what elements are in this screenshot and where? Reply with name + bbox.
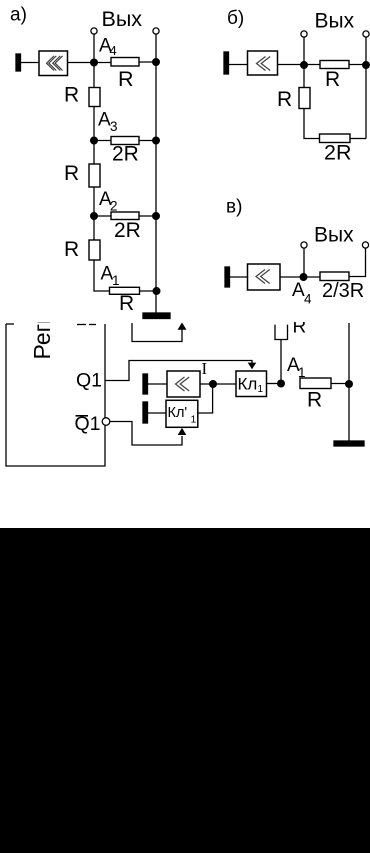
node A1 junction dot (fragment) xyxy=(278,380,285,387)
wire xyxy=(21,62,40,64)
arrowhead up into Kl'1 xyxy=(178,428,187,435)
svg-text:I: I xyxy=(202,359,208,378)
wire xyxy=(94,215,111,217)
ground (fragment) xyxy=(334,441,364,446)
wire xyxy=(303,65,305,88)
terminal circle right (a) xyxy=(153,28,159,34)
battery bar E (a) xyxy=(16,54,21,71)
svg-text:4: 4 xyxy=(110,43,117,58)
battery bar E (b) xyxy=(224,52,229,74)
svg-text:R: R xyxy=(277,88,292,111)
svg-text:1: 1 xyxy=(112,273,120,288)
wire xyxy=(349,64,366,66)
wire xyxy=(349,248,366,276)
svg-text:2: 2 xyxy=(110,199,118,214)
arrowhead up (hook) xyxy=(178,323,187,330)
wire Kl'1 to junction xyxy=(198,387,213,413)
register box (cropped) xyxy=(6,324,105,466)
right rail (a) xyxy=(155,34,157,313)
wire xyxy=(331,383,349,385)
wire xyxy=(139,215,156,217)
svg-text:а): а) xyxy=(10,5,27,26)
wire xyxy=(303,37,305,65)
wire xyxy=(304,109,320,139)
switch Kl'1 box xyxy=(166,400,198,427)
node A4 junction dot xyxy=(91,59,98,66)
right rail (fragment) xyxy=(348,323,350,441)
battery bar E1 (fragment) xyxy=(143,374,148,394)
svg-text:Q1: Q1 xyxy=(76,370,102,392)
wire xyxy=(139,140,156,142)
terminal circle left (b) xyxy=(301,31,307,37)
wire xyxy=(93,107,95,141)
wire xyxy=(93,187,95,216)
svg-text:4: 4 xyxy=(304,292,312,307)
wire xyxy=(229,64,248,66)
svg-text:1: 1 xyxy=(191,414,197,426)
junction dot right rail row4 xyxy=(153,288,160,295)
wire xyxy=(93,141,95,165)
svg-text:1: 1 xyxy=(258,384,264,395)
right rail (b) xyxy=(365,37,367,138)
wire xyxy=(68,62,112,64)
battery bar E (v) xyxy=(225,267,230,287)
terminal circle right (v) xyxy=(362,242,368,248)
terminal circle left (a) xyxy=(91,28,97,34)
wire Q1-bar to Kl'1 control xyxy=(110,422,182,446)
node A2 junction dot xyxy=(91,213,98,220)
wire xyxy=(148,383,168,385)
node A3 junction dot xyxy=(91,137,98,144)
junction dot right (b) xyxy=(363,62,370,69)
wire from cropped R down to node A1 xyxy=(280,340,282,384)
wire xyxy=(94,260,110,291)
wire Q1 to Kl1 control xyxy=(105,361,252,381)
resistor 2R (b) xyxy=(320,134,351,143)
svg-text:2R: 2R xyxy=(114,219,141,242)
wire xyxy=(93,63,95,88)
svg-text:Вых: Вых xyxy=(102,7,143,31)
junction dot right rail row1 xyxy=(153,59,160,66)
current source box (v) xyxy=(248,264,281,290)
current source box (a) xyxy=(39,51,68,76)
wire xyxy=(280,276,320,278)
svg-text:R: R xyxy=(64,238,79,261)
wire xyxy=(94,140,111,142)
wire xyxy=(139,61,156,63)
wire xyxy=(303,248,305,277)
svg-text:б): б) xyxy=(227,8,244,29)
svg-text:R: R xyxy=(118,67,134,91)
wire xyxy=(230,276,248,278)
wire xyxy=(278,64,321,66)
resistor 2R row3 (a) xyxy=(111,212,139,220)
wire xyxy=(93,34,95,62)
svg-text:2R: 2R xyxy=(324,141,351,165)
junction dot right rail row2 xyxy=(153,137,160,144)
wire xyxy=(267,383,282,385)
svg-text:Вых: Вых xyxy=(315,10,355,33)
black bottom region xyxy=(0,528,370,853)
svg-text:2R: 2R xyxy=(112,143,139,166)
svg-text:R: R xyxy=(64,162,79,185)
arrowhead down into Kl1 xyxy=(248,363,257,370)
resistor 2/3R (v) xyxy=(320,272,349,281)
resistor R row1 (a) xyxy=(111,58,139,67)
wire xyxy=(200,383,236,385)
resistor R vertical (fragment, cropped open top) xyxy=(275,325,288,340)
junction dot right rail (fragment) xyxy=(346,381,353,388)
inverter bubble xyxy=(102,418,110,426)
svg-text:R: R xyxy=(325,68,340,91)
resistor R row4 (a) xyxy=(110,287,140,294)
terminal circle right (b) xyxy=(363,31,369,37)
svg-text:в): в) xyxy=(226,197,242,218)
svg-text:Кл': Кл' xyxy=(168,405,188,421)
wire hook with up arrow (fragment, cropped) xyxy=(132,323,182,342)
junction dot (b) xyxy=(301,62,308,69)
svg-text:2/3R: 2/3R xyxy=(322,280,364,302)
wire xyxy=(140,290,157,292)
resistor R row1 (b) xyxy=(320,61,349,69)
resistor R vertical 2 (a) xyxy=(89,164,100,187)
svg-text:R: R xyxy=(293,317,307,338)
resistor R horizontal (fragment) xyxy=(300,378,331,389)
resistor R vertical (b) xyxy=(299,88,310,109)
resistor 2R row2 (a) xyxy=(111,137,139,145)
switch Kl1 box xyxy=(236,371,267,397)
wire xyxy=(148,412,167,414)
svg-text:R: R xyxy=(119,292,134,315)
current source box (b) xyxy=(248,51,278,75)
svg-text:R: R xyxy=(64,84,79,107)
ground (a) xyxy=(143,313,170,319)
resistor R vertical 3 (a) xyxy=(89,240,100,260)
junction dot node A4 (v) xyxy=(300,274,307,281)
junction dot xyxy=(210,381,217,388)
wire xyxy=(93,216,95,240)
svg-text:Кл: Кл xyxy=(238,375,258,394)
terminal circle left (v) xyxy=(301,242,307,248)
resistor R vertical 1 (a) xyxy=(89,88,100,107)
junction dot right rail row3 xyxy=(153,213,160,220)
current source box (fragment) xyxy=(167,371,200,397)
wire xyxy=(350,138,366,140)
svg-text:Вых: Вых xyxy=(314,224,354,247)
battery bar E2 (fragment) xyxy=(143,402,148,423)
svg-text:3: 3 xyxy=(110,119,118,134)
svg-text:R: R xyxy=(307,389,322,412)
